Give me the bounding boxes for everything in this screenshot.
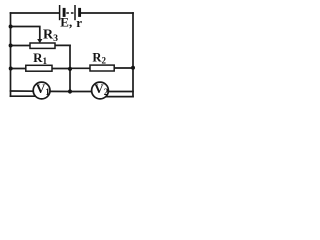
- wire top-left segment (battery negative lead): [11, 12, 60, 14]
- wire bottom-right segment: [107, 96, 134, 98]
- junction dot left R3 row: [9, 44, 13, 48]
- battery dashed link: [66, 12, 74, 14]
- wire middle column node: [69, 45, 71, 91]
- battery cell1 long plate: [59, 5, 61, 20]
- battery cell1 short thick plate: [63, 8, 66, 17]
- wire R3 wiper branch: [11, 27, 40, 40]
- resistor R2 body: [90, 65, 114, 71]
- wire voltmeter row left: [11, 90, 34, 92]
- wire right edge: [132, 13, 134, 97]
- battery cell2 long plate: [74, 5, 76, 20]
- voltmeter V2 circle: [92, 82, 109, 99]
- wire middle to R2: [70, 67, 90, 69]
- wire V1 to middle: [50, 90, 70, 92]
- svg-text:R2: R2: [92, 50, 106, 65]
- svg-text:V1: V1: [36, 81, 50, 97]
- junction dot left R1 row: [9, 67, 13, 71]
- wire R2 to right edge: [114, 67, 133, 69]
- wire V2 to right edge: [108, 91, 133, 93]
- wire R1 to middle: [52, 68, 70, 70]
- svg-text:R1: R1: [33, 50, 47, 66]
- wire R3 row right to middle column: [55, 44, 70, 46]
- junction dot right R2 row: [131, 66, 135, 70]
- resistor R1 body: [26, 65, 52, 71]
- junction dot middle cross: [68, 67, 72, 71]
- voltmeter V1 circle: [33, 82, 50, 99]
- svg-text:R3: R3: [43, 28, 58, 45]
- svg-text:E,: E,: [60, 15, 72, 30]
- wire middle to V2: [70, 91, 92, 93]
- junction dot left R3 wiper tap: [9, 25, 13, 29]
- resistor R3 body: [30, 43, 55, 48]
- battery E,r (two cells with dashes): [60, 5, 80, 20]
- wire top-right segment (battery positive lead): [81, 12, 134, 14]
- wire R1 row left: [11, 68, 26, 70]
- wire left edge: [10, 13, 12, 96]
- junction dot middle V row: [68, 89, 72, 93]
- svg-text:V2: V2: [94, 81, 108, 97]
- battery cell2 short thick plate: [78, 8, 81, 17]
- R3 wiper arrowhead: [37, 39, 42, 43]
- wire bottom-left segment: [11, 95, 37, 97]
- svg-text:r: r: [76, 15, 82, 30]
- wire R3 row left: [11, 45, 31, 47]
